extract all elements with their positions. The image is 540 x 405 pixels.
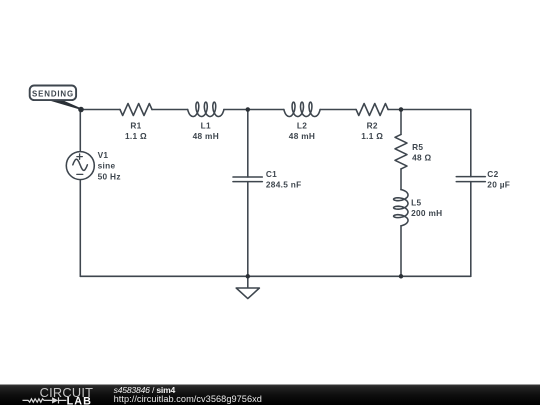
capacitor C1 [233,177,262,182]
svg-text:48 mH: 48 mH [193,131,219,141]
capacitor C2 [456,177,485,182]
wire: L1 to L2 through node B [224,109,284,111]
svg-text:R2: R2 [367,121,378,131]
svg-text:V1: V1 [98,150,109,160]
wire: C1 branch bottom, C1 to ground node [247,182,249,277]
wire: L2 to R2 [320,109,356,111]
inductor L5 [394,190,408,226]
node D junction (L5 / bottom rail) [399,274,404,279]
wire: left rail top, node A to V1 [79,110,81,152]
svg-text:sine: sine [98,161,116,171]
resistor R1 [120,104,152,116]
wire: node A to R1 [81,109,120,111]
wire: bottom rail [80,275,471,277]
wire: right rail bottom, C2 to bottom-right corner [470,182,472,277]
svg-text:L1: L1 [201,121,211,131]
voltage source V1 [66,152,94,180]
svg-text:SENDING: SENDING [32,90,74,99]
svg-text:L5: L5 [411,198,421,208]
wire: R1 to L1 [152,109,188,111]
inductor L2 [284,102,320,116]
svg-text:C2: C2 [487,169,498,179]
wire: R5 to L5 [400,169,402,190]
svg-text:48 Ω: 48 Ω [412,153,431,163]
svg-text:20 µF: 20 µF [487,179,510,189]
node B junction (L1 / L2 / C1) [246,107,251,112]
svg-text:50 Hz: 50 Hz [98,171,121,181]
svg-text:R5: R5 [412,142,423,152]
wire: R5 branch top, node C down to R5 [400,110,402,135]
node A junction (SENDING / V1 / R1) [78,107,84,113]
svg-text:200 mH: 200 mH [411,208,442,218]
inductor L1 [188,102,224,116]
svg-text:http://circuitlab.com/cv3568g9: http://circuitlab.com/cv3568g9756xd [114,394,262,404]
svg-text:LAB: LAB [67,396,93,405]
ground [236,276,259,298]
ground node junction [246,274,251,279]
svg-text:L2: L2 [297,121,307,131]
node C junction (R2 / R5) [399,107,404,112]
wire: C1 branch top, node B down to C1 [247,110,249,178]
resistor R2 [356,104,388,116]
wire: L5 to bottom rail node D [400,226,402,276]
svg-text:284.5 nF: 284.5 nF [266,179,302,189]
wire: right rail top, corner to C2 [470,110,472,177]
wire: R2 to top-right corner [388,109,471,111]
svg-text:R1: R1 [130,121,141,131]
svg-text:1.1 Ω: 1.1 Ω [361,131,383,141]
svg-text:48 mH: 48 mH [289,131,315,141]
CircuitLab logo [23,385,94,405]
flag SENDING [30,86,82,110]
svg-text:1.1 Ω: 1.1 Ω [125,131,147,141]
svg-text:C1: C1 [266,169,277,179]
resistor R5 [395,134,407,169]
wire: left rail bottom, V1 to bottom-left corner [79,180,81,277]
